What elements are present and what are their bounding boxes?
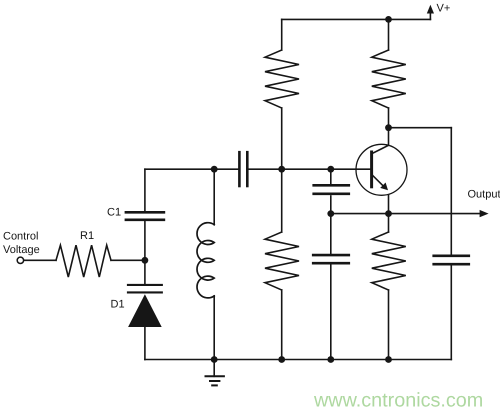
svg-text:D1: D1	[111, 298, 125, 310]
svg-text:Voltage: Voltage	[3, 244, 40, 256]
svg-text:V+: V+	[437, 3, 451, 15]
svg-text:Output: Output	[468, 189, 500, 201]
svg-text:R1: R1	[80, 230, 94, 242]
svg-text:Control: Control	[3, 230, 38, 242]
svg-text:C1: C1	[107, 206, 121, 218]
svg-text:www.cntronics.com: www.cntronics.com	[313, 390, 483, 412]
